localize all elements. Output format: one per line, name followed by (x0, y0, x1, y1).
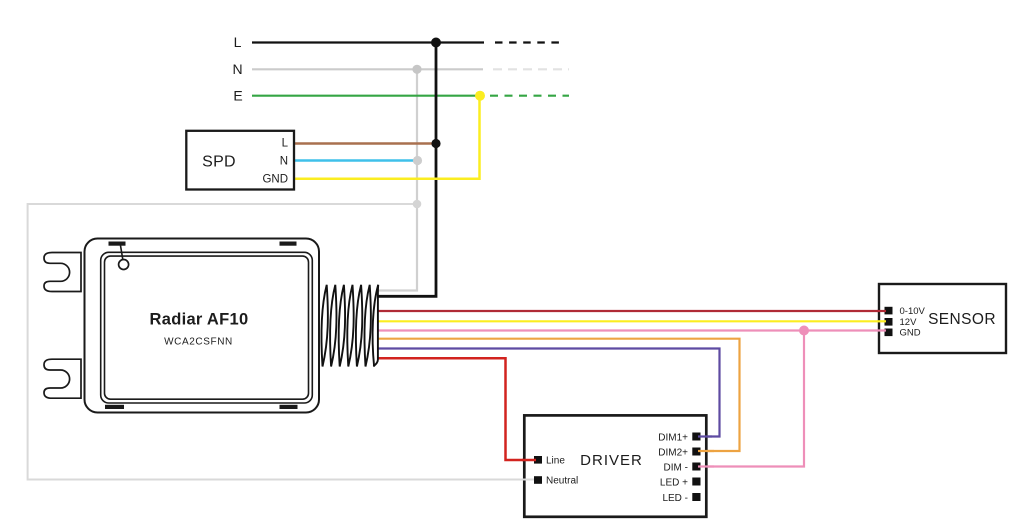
svg-text:GND: GND (262, 174, 288, 186)
svg-text:Radiar AF10: Radiar AF10 (150, 311, 249, 329)
svg-text:N: N (280, 156, 288, 168)
svg-text:0-10V: 0-10V (900, 306, 926, 317)
svg-text:Line: Line (546, 456, 565, 467)
svg-text:WCA2CSFNN: WCA2CSFNN (164, 337, 233, 348)
svg-text:SENSOR: SENSOR (928, 311, 996, 328)
svg-text:L: L (282, 138, 289, 150)
svg-text:SPD: SPD (202, 154, 236, 171)
svg-text:DIM1+: DIM1+ (658, 433, 688, 444)
svg-text:N: N (232, 61, 242, 77)
svg-text:DRIVER: DRIVER (580, 452, 643, 469)
svg-text:DIM2+: DIM2+ (658, 448, 688, 459)
svg-text:LED -: LED - (662, 493, 688, 504)
svg-text:DIM -: DIM - (664, 463, 688, 474)
svg-text:L: L (234, 34, 242, 50)
svg-text:GND: GND (900, 328, 921, 339)
svg-text:Neutral: Neutral (546, 476, 578, 487)
svg-text:E: E (233, 88, 242, 104)
svg-text:12V: 12V (900, 317, 918, 328)
svg-text:LED +: LED + (660, 478, 688, 489)
